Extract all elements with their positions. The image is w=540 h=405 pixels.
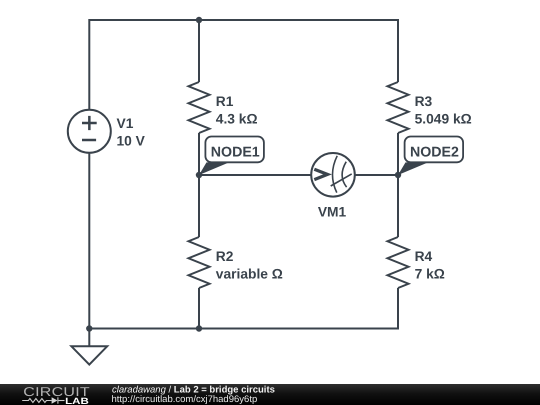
svg-text:V1: V1 — [117, 116, 134, 131]
node NODE2 — [398, 137, 463, 176]
junction dot left-bottom — [86, 325, 92, 331]
wire: R1 to NODE1 — [198, 133, 200, 175]
junction dot bottom middle — [196, 325, 202, 331]
svg-text:R2: R2 — [216, 249, 234, 264]
svg-text:7 kΩ: 7 kΩ — [415, 267, 445, 282]
wire: right branch top segment — [397, 19, 399, 82]
voltmeter VM1 — [311, 153, 355, 197]
wire: R3 to R4 — [397, 133, 399, 237]
wire: middle horizontal right (voltmeter to NODE2) — [355, 174, 398, 176]
node NODE1 — [199, 137, 264, 176]
svg-text:variable Ω: variable Ω — [216, 267, 283, 282]
resistor R3 — [388, 82, 409, 133]
junction dot NODE1 — [196, 172, 202, 178]
wire: NODE1 to R2 — [198, 175, 200, 237]
wire: R2 to bottom rail — [198, 288, 200, 329]
wire: bottom horizontal rail — [89, 328, 398, 330]
svg-text:LAB: LAB — [65, 396, 89, 405]
wire: top horizontal rail — [89, 19, 398, 21]
logo resistor-diode glyph — [22, 397, 64, 403]
svg-text:R1: R1 — [216, 94, 234, 109]
resistor R1 — [189, 82, 210, 133]
wire: middle horizontal left (NODE1 to voltmeter) — [199, 174, 311, 176]
svg-text:R4: R4 — [415, 249, 433, 264]
footer bar — [0, 384, 540, 405]
wire: left branch lower segment — [88, 153, 90, 346]
resistor R2 — [189, 237, 210, 288]
svg-text:R3: R3 — [415, 94, 433, 109]
svg-text:VM1: VM1 — [318, 204, 347, 219]
wire: middle branch top segment — [198, 20, 200, 82]
svg-text:4.3 kΩ: 4.3 kΩ — [216, 112, 258, 127]
resistor R4 — [388, 237, 409, 288]
svg-text:10 V: 10 V — [117, 134, 146, 149]
junction dot NODE2 — [395, 172, 401, 178]
svg-text:5.049 kΩ: 5.049 kΩ — [415, 112, 472, 127]
wire: left branch upper segment — [88, 19, 90, 110]
voltage source V1 — [68, 110, 111, 153]
junction dot top middle — [196, 17, 202, 23]
ground — [71, 346, 107, 364]
wire: R4 to bottom rail — [397, 288, 399, 330]
svg-text:http://circuitlab.com/cxj7had9: http://circuitlab.com/cxj7had96y6tp — [112, 394, 258, 405]
svg-text:NODE2: NODE2 — [410, 145, 459, 161]
svg-text:NODE1: NODE1 — [211, 145, 260, 161]
